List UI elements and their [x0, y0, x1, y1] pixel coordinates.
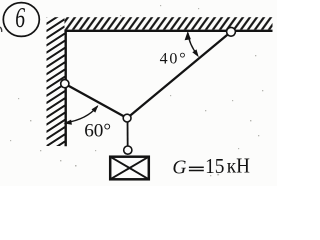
wall pin joint — [61, 80, 69, 88]
svg-text:6: 6 — [15, 2, 25, 34]
vertical hanger link — [127, 118, 129, 151]
arrowhead at rod end of 40 arc — [192, 49, 199, 57]
weight box — [110, 157, 149, 180]
rod node to ceiling-pin (40 deg member) — [127, 32, 231, 118]
wall hatch — [47, 17, 65, 146]
svg-text:15: 15 — [205, 155, 224, 178]
ceiling hatch — [64, 17, 273, 29]
60 deg angle arc — [66, 106, 98, 122]
svg-text:G: G — [172, 156, 186, 179]
central node joint — [123, 114, 131, 122]
rod wall-pin to node (60 deg member) — [65, 84, 127, 118]
40 deg angle arc — [188, 33, 198, 55]
scan noise dots — [10, 5, 263, 176]
problem number circle — [3, 3, 39, 37]
svg-text:40°: 40° — [160, 51, 188, 68]
ceiling pin joint — [227, 27, 236, 36]
arrowhead at ceiling end of 40 arc — [185, 31, 191, 40]
wall line — [64, 30, 66, 147]
weight box X diagonal 2 — [110, 157, 149, 180]
ceiling line — [64, 30, 272, 32]
equals sign bar 2 — [189, 170, 204, 172]
svg-text:60°: 60° — [84, 120, 111, 141]
arrowhead at rod end of 60 arc — [92, 105, 99, 113]
hanger bottom joint — [124, 146, 132, 154]
stray mark left edge — [0, 27, 2, 32]
arrowhead at wall end of 60 arc — [64, 120, 72, 125]
svg-text:кН: кН — [227, 155, 250, 178]
equals sign bar 1 — [189, 166, 204, 168]
weight box X diagonal 1 — [110, 157, 149, 180]
